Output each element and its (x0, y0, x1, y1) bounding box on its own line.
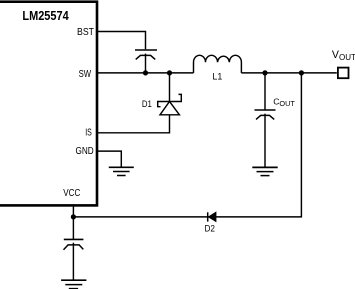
svg-text:COUT: COUT (273, 97, 295, 108)
junction dot at D1/SW (167, 70, 172, 75)
wire COUT top lead (264, 73, 266, 110)
op-amp U1 LM25574 IC box (0, 2, 97, 206)
svg-text:IS: IS (85, 128, 92, 139)
wire GND pin (98, 151, 122, 167)
wire SW pin to inductor (98, 72, 194, 74)
diode D1 zener cathode bar (158, 94, 182, 106)
capacitor CVCC top plate (64, 238, 84, 240)
capacitor CVCC curved plate (64, 245, 84, 250)
svg-text:VCC: VCC (63, 188, 80, 199)
capacitor COUT curved plate (256, 115, 274, 119)
capacitor CBST top plate (135, 49, 157, 51)
inductor L1 (194, 55, 242, 73)
wire BST pin to bootstrap capacitor (98, 32, 146, 50)
wire D1 anode to IS pin (98, 115, 170, 133)
ground symbol at GND pin (109, 167, 134, 175)
ground symbol below COUT (252, 167, 277, 175)
capacitor CVCC top lead (72, 217, 74, 239)
diode D1 anode triangle (160, 102, 179, 115)
junction dot at CBST/SW (143, 70, 148, 75)
wire VCC pin stub (72, 205, 74, 217)
capacitor CBST curved plate (136, 55, 156, 59)
wire CVCC to ground (72, 243, 74, 280)
wire CBST to SW node (145, 54, 147, 73)
diode D2 cathode bar (207, 212, 209, 221)
svg-text:BST: BST (77, 27, 94, 38)
terminal VOUT square (338, 68, 349, 79)
wire SW node down to D1 cathode (169, 73, 171, 102)
svg-text:GND: GND (76, 146, 94, 157)
capacitor COUT top plate (255, 109, 276, 111)
junction dot at VCC node (71, 214, 76, 219)
svg-text:L1: L1 (212, 71, 222, 82)
ground symbol below CVCC (61, 280, 86, 288)
diode D2 anode triangle (209, 212, 216, 221)
svg-text:LM25574: LM25574 (22, 8, 69, 23)
svg-text:SW: SW (79, 69, 92, 80)
wire VCC node to D2 to output riser (73, 73, 301, 217)
svg-text:D2: D2 (205, 223, 216, 234)
wire inductor to VOUT terminal (241, 72, 336, 74)
wire COUT to ground (264, 114, 266, 167)
junction dot at COUT (262, 70, 267, 75)
svg-text:D1: D1 (142, 99, 152, 110)
junction dot at output riser (299, 70, 304, 75)
